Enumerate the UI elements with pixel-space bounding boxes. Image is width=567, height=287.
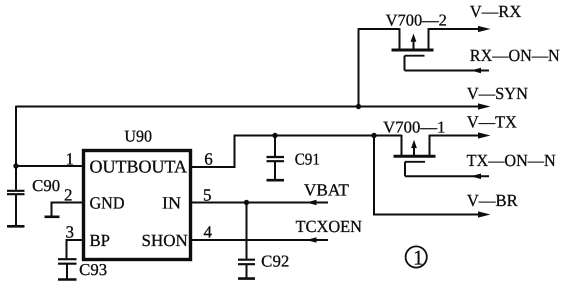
capacitor C92 (238, 259, 255, 261)
node RX-ON-N arrow (471, 68, 481, 74)
svg-text:BP: BP (90, 231, 111, 250)
wire left vertical to C90 (15, 106, 17, 190)
svg-text:V700—2: V700—2 (386, 10, 447, 29)
node junction pin5/C92 (244, 200, 249, 205)
wire pin 2 (52, 203, 85, 217)
svg-text:V—TX: V—TX (467, 112, 517, 131)
wire pin 5 / VBAT (190, 202, 328, 204)
svg-text:V—SYN: V—SYN (467, 84, 528, 103)
svg-text:TCXOEN: TCXOEN (296, 217, 362, 236)
wire pin 1 (16, 165, 84, 167)
node TX-ON-N arrow (471, 174, 481, 180)
svg-text:3: 3 (66, 223, 75, 242)
svg-text:1: 1 (66, 149, 75, 168)
svg-text:5: 5 (203, 186, 212, 205)
node junction pin1/C90 (13, 163, 18, 168)
svg-text:TX—ON—N: TX—ON—N (467, 151, 556, 170)
node VBAT arrow (306, 200, 316, 206)
svg-text:RX—ON—N: RX—ON—N (470, 46, 560, 65)
wire RX-ON-N (405, 70, 490, 72)
svg-text:U90: U90 (124, 127, 152, 146)
svg-text:C92: C92 (261, 252, 289, 271)
svg-text:V—RX: V—RX (470, 2, 522, 21)
svg-text:SHON: SHON (142, 231, 188, 250)
svg-text:VBAT: VBAT (304, 180, 350, 199)
svg-text:4: 4 (204, 223, 213, 242)
svg-text:V700—1: V700—1 (383, 117, 445, 136)
wire V-TX net horizontal (234, 135, 402, 137)
capacitor C90 (7, 190, 25, 192)
capacitor C91 (274, 136, 276, 157)
capacitor C93 (58, 258, 77, 260)
node V-RX arrow (478, 26, 491, 32)
wire V-SYN net horizontal (16, 106, 481, 108)
wire V-BR (374, 136, 481, 215)
svg-text:C91: C91 (295, 149, 320, 168)
svg-text:2: 2 (64, 186, 73, 205)
node V-SYN arrow (478, 103, 491, 109)
transistor V700-1 (394, 135, 482, 177)
svg-text:C93: C93 (79, 260, 107, 279)
svg-text:GND: GND (90, 193, 125, 212)
ground (45, 216, 60, 219)
figure number circle 1 (406, 246, 427, 267)
op-amp U90 (regulator IC box) (84, 151, 191, 260)
node V-BR arrow (478, 211, 491, 217)
svg-text:OUTBOUTA: OUTBOUTA (90, 157, 188, 177)
node V-TX arrow (478, 132, 491, 138)
wire pin 6 (190, 135, 235, 167)
wire TX-ON-N (405, 175, 489, 177)
node junction V-SYN/V700-2 (356, 104, 361, 109)
wire pin 3 (67, 240, 85, 259)
node junction V700-1/V-BR (371, 133, 376, 138)
wire pin 4 / TCXOEN (190, 239, 328, 241)
transistor V700-2 (359, 28, 482, 70)
svg-text:IN: IN (162, 193, 181, 212)
node TCXOEN arrow (306, 237, 316, 243)
node junction C91 (272, 133, 277, 138)
svg-text:6: 6 (204, 149, 213, 168)
svg-text:V—BR: V—BR (467, 191, 518, 210)
wire vertical to V700-2 (358, 28, 360, 107)
svg-text:1: 1 (413, 246, 424, 270)
svg-text:C90: C90 (32, 176, 60, 195)
wire C92 branch (246, 203, 248, 259)
